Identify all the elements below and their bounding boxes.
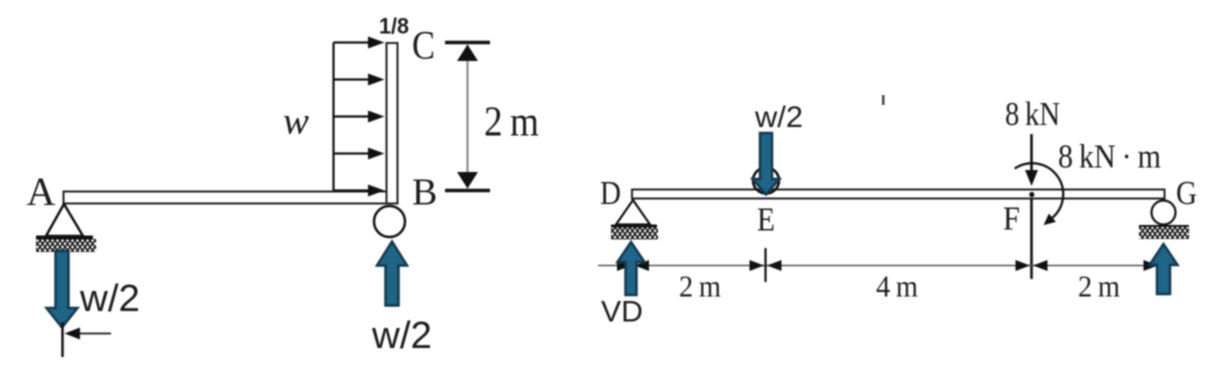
dimension line DG bbox=[598, 265, 1160, 267]
svg-text:w/2: w/2 bbox=[754, 101, 803, 134]
dimension arrowheads at E bbox=[750, 260, 782, 271]
dimension arrowheads at F bbox=[1016, 260, 1048, 271]
label w (load intensity) bbox=[283, 101, 310, 143]
reaction arrow w/2 down at A (blue) bbox=[47, 251, 78, 328]
dimension label 4 m (E-F) bbox=[876, 269, 918, 304]
svg-text:2 m: 2 m bbox=[1078, 269, 1120, 304]
dot at F bbox=[1029, 192, 1034, 197]
svg-text:B: B bbox=[412, 172, 437, 214]
node label D bbox=[600, 175, 621, 212]
svg-text:4 m: 4 m bbox=[876, 269, 918, 304]
node label B bbox=[412, 172, 437, 214]
force 8kN arrow at F bbox=[1025, 134, 1038, 186]
svg-text:w: w bbox=[283, 101, 310, 143]
svg-text:2 m: 2 m bbox=[484, 100, 539, 146]
distributed load arrow 1 bbox=[334, 37, 385, 49]
dimension 2m: top tick at C bbox=[445, 41, 490, 45]
node label A bbox=[27, 169, 56, 214]
label 8 kN bbox=[1005, 96, 1060, 133]
small left arrow at A base bbox=[65, 328, 112, 340]
svg-text:w/2: w/2 bbox=[79, 278, 140, 320]
label w/2 at A bbox=[79, 278, 140, 320]
label 1/8 bbox=[379, 14, 409, 39]
label w/2 at E bbox=[754, 101, 803, 134]
svg-text:8 kN: 8 kN bbox=[1005, 96, 1060, 133]
distributed load w: left edge bbox=[332, 43, 334, 191]
distributed load arrow 2 bbox=[334, 74, 385, 86]
stray cursor mark bbox=[882, 95, 885, 105]
dimension label 2 m (F-G) bbox=[1078, 269, 1120, 304]
beam AB (double-line) bbox=[64, 192, 398, 204]
tick below arrow at A bbox=[61, 322, 64, 357]
label w/2 at B bbox=[371, 315, 432, 357]
distributed load arrow 3 bbox=[334, 111, 385, 123]
dimension 2m: up arrowhead bbox=[457, 45, 478, 62]
roller support at G bbox=[1139, 201, 1189, 240]
load arrow w/2 down at E (blue) bbox=[753, 133, 780, 195]
vertical member BC bbox=[387, 43, 398, 204]
distributed load arrow 5 bbox=[334, 185, 385, 197]
svg-text:2 m: 2 m bbox=[679, 269, 721, 304]
dimension arrowheads at D bbox=[617, 260, 649, 271]
dimension 2m: bottom tick at B bbox=[445, 189, 490, 193]
node label C bbox=[412, 23, 435, 68]
svg-text:F: F bbox=[1003, 201, 1020, 238]
svg-text:A: A bbox=[27, 169, 56, 214]
line below beam at F bbox=[1030, 199, 1033, 279]
svg-text:8 kN · m: 8 kN · m bbox=[1058, 139, 1161, 176]
dimension 2m: down arrowhead bbox=[457, 172, 478, 189]
moment arc 8kN·m at F bbox=[1015, 163, 1063, 225]
svg-text:C: C bbox=[412, 23, 435, 68]
dimension arrowhead at G bbox=[1144, 260, 1159, 271]
node label E bbox=[757, 202, 775, 239]
beam DG (double-line) bbox=[632, 190, 1165, 199]
pin support at A bbox=[36, 204, 96, 252]
reaction arrow w/2 up at B (blue) bbox=[377, 242, 407, 306]
reaction arrow VD up at D (blue) bbox=[618, 242, 645, 295]
roller support at B bbox=[374, 206, 405, 237]
dimension label 2 m (D-E) bbox=[679, 269, 721, 304]
svg-text:D: D bbox=[600, 175, 621, 212]
node label G bbox=[1176, 175, 1197, 212]
reaction arrow up at G (blue) bbox=[1150, 244, 1178, 294]
svg-text:1/8: 1/8 bbox=[379, 14, 409, 39]
dimension label 2 m bbox=[484, 100, 539, 146]
svg-text:w/2: w/2 bbox=[371, 315, 432, 357]
svg-text:VD: VD bbox=[601, 296, 643, 329]
label VD bbox=[601, 296, 643, 329]
label 8 kN · m bbox=[1058, 139, 1161, 176]
svg-text:G: G bbox=[1176, 175, 1197, 212]
dimension 2m: vertical line bbox=[467, 45, 469, 188]
hinge circle at E bbox=[753, 168, 779, 194]
svg-text:E: E bbox=[757, 202, 775, 239]
node label F bbox=[1003, 201, 1020, 238]
distributed load arrow 4 bbox=[334, 148, 385, 160]
pin support at D bbox=[611, 200, 658, 240]
dimension tick at E bbox=[764, 248, 766, 282]
